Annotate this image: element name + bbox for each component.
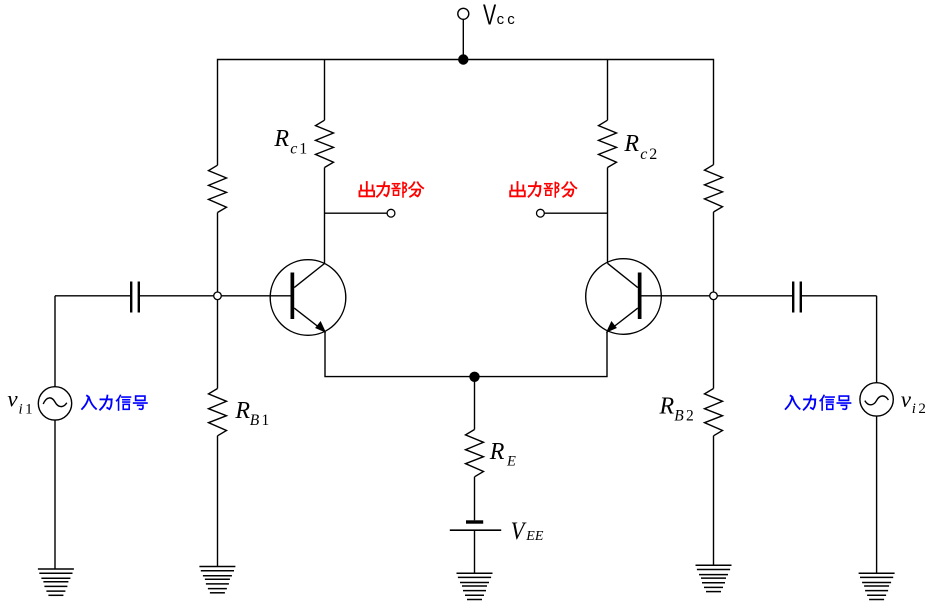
wire source2 to ground: [876, 416, 878, 573]
ground RB1: [199, 567, 235, 593]
node output terminal 1 (open circle): [387, 209, 395, 217]
wire Rc1 to collector Q1: [324, 168, 326, 264]
node base 1 (open circle): [214, 292, 222, 300]
ground source1: [38, 569, 74, 595]
source vi2 (AC): [860, 383, 893, 416]
svg-text:R: R: [489, 439, 505, 465]
svg-text:R: R: [623, 131, 639, 157]
svg-text:R: R: [659, 393, 675, 419]
label output 2 (red) 出力部分: [510, 182, 576, 197]
resistor Rc1: [316, 120, 334, 167]
wire emitter rail: [325, 332, 607, 377]
svg-text:cc: cc: [497, 11, 518, 28]
source vi1 (AC): [38, 387, 71, 420]
resistor RB1: [209, 389, 227, 436]
resistor RE: [466, 430, 484, 477]
svg-text:v: v: [901, 387, 912, 412]
wire RE to battery: [474, 477, 476, 521]
wire to RE: [474, 377, 476, 430]
label Rc2: [623, 131, 659, 163]
wire right rail to base node: [713, 212, 715, 292]
wire capacitor to base node 1: [140, 295, 214, 297]
resistor right bias (top right): [705, 165, 723, 212]
svg-text:E: E: [506, 454, 516, 470]
wire output tap 1: [325, 212, 388, 214]
resistor left bias (top left): [209, 165, 227, 212]
svg-text:c1: c1: [290, 140, 309, 157]
resistor RB2: [705, 389, 723, 436]
wire base node 2 to capacitor: [717, 295, 792, 297]
svg-text:B1: B1: [250, 412, 272, 429]
node output terminal 2 (open circle): [537, 209, 545, 217]
label RE: [489, 439, 516, 470]
wire left rail to base node: [217, 213, 219, 293]
battery VEE: [450, 520, 501, 530]
wire capacitor to source2: [802, 295, 877, 297]
wire RB1 to ground: [217, 436, 219, 567]
wire Rc2 to collector Q2: [607, 168, 609, 264]
wire output tap 2: [544, 212, 607, 214]
wire top supply rail: [218, 60, 714, 166]
label input signal 2 (blue) 入力信号: [786, 395, 851, 410]
svg-text:v: v: [7, 387, 18, 412]
ground VEE: [457, 573, 493, 599]
transistor Q1: [221, 260, 346, 336]
svg-text:R: R: [234, 398, 250, 424]
wire source1 to ground: [54, 420, 56, 569]
wire RB2 to ground: [713, 436, 715, 566]
label RB1: [234, 398, 271, 429]
svg-text:c2: c2: [640, 146, 659, 163]
svg-text:i1: i1: [19, 401, 35, 417]
svg-text:B2: B2: [674, 408, 696, 425]
wire base node 2 to RB2: [713, 300, 715, 389]
capacitor C1: [131, 282, 139, 313]
wire battery to ground: [474, 530, 476, 573]
resistor Rc2: [599, 120, 617, 167]
svg-text:V: V: [483, 0, 497, 32]
junction Vcc rail dot: [458, 54, 468, 64]
svg-text:V: V: [511, 518, 527, 545]
wire Rc1 top: [324, 60, 326, 121]
svg-text:EE: EE: [525, 529, 544, 544]
junction emitter rail dot: [469, 372, 479, 382]
label RB2: [659, 393, 696, 424]
label Rc1: [273, 126, 309, 157]
wire source1 vertical: [54, 296, 56, 387]
label input signal 1 (blue) 入力信号: [82, 395, 147, 410]
svg-text:i2: i2: [912, 401, 928, 417]
transistor Q2: [586, 259, 710, 335]
ground RB2: [696, 565, 732, 591]
label vi2: [901, 387, 928, 417]
wire base node to RB1: [217, 300, 219, 389]
label vi1: [7, 387, 35, 418]
wire Rc2 top: [607, 60, 609, 121]
Vcc terminal: [458, 8, 469, 59]
node base 2 (open circle): [710, 292, 718, 300]
capacitor C2: [793, 282, 801, 313]
label Vcc: [483, 0, 518, 32]
wire source1 to capacitor: [55, 295, 130, 297]
wire source2 vertical: [876, 296, 878, 383]
svg-text:R: R: [273, 126, 289, 152]
ground source2: [859, 573, 895, 599]
label VEE: [511, 518, 544, 545]
label output 1 (red) 出力部分: [359, 182, 423, 197]
